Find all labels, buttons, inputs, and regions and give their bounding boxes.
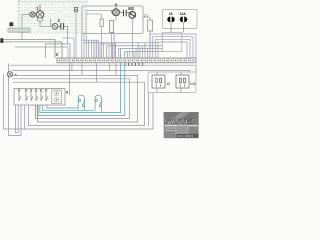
terminal box under M3 bbox=[38, 18, 43, 21]
svg-text:8: 8 bbox=[66, 91, 68, 95]
svg-text:10: 10 bbox=[166, 82, 170, 86]
wire fan teal bbox=[38, 63, 125, 115]
wire bbox=[35, 14, 36, 16]
control unit box bbox=[82, 6, 143, 34]
sensor 15 bbox=[100, 14, 103, 58]
socket S2 bbox=[176, 75, 189, 88]
label 2 bbox=[58, 18, 61, 23]
wire bridge bbox=[45, 44, 70, 58]
logo plate bbox=[164, 112, 199, 138]
socket S1 bbox=[152, 75, 165, 88]
label 1 bbox=[36, 5, 39, 10]
plug F1 bbox=[167, 17, 175, 29]
label 16 bbox=[169, 12, 173, 16]
label 10A bbox=[190, 82, 197, 86]
svg-text:10A: 10A bbox=[180, 12, 187, 16]
wire N bbox=[3, 40, 55, 58]
plug box bbox=[163, 10, 198, 29]
wire forest bbox=[74, 34, 148, 59]
wire fan red bbox=[35, 105, 37, 122]
jog wires bbox=[62, 38, 162, 52]
strip stubs bbox=[125, 63, 143, 66]
bus wires bbox=[10, 65, 196, 125]
dashed green enclosure (machine body) bbox=[17, 0, 88, 33]
svg-text:16: 16 bbox=[169, 12, 173, 16]
label 10A bbox=[180, 12, 187, 16]
wire bbox=[40, 21, 52, 26]
teal risers bbox=[121, 49, 125, 64]
wire fan gray bbox=[25, 93, 153, 130]
left terminal blob bbox=[0, 38, 3, 43]
thermostat 14 bbox=[74, 8, 77, 58]
wire plug drops bbox=[171, 29, 184, 33]
capacitor C2 bbox=[58, 23, 64, 30]
motor M2 bbox=[128, 6, 135, 58]
wire L bbox=[3, 42, 62, 58]
terminal strip bbox=[57, 58, 196, 63]
label 8 bbox=[66, 91, 68, 95]
plug F2 bbox=[180, 17, 188, 29]
resistor 21 bbox=[143, 14, 153, 58]
pressure switch contact B bbox=[95, 95, 102, 112]
bottom left U loops bbox=[3, 74, 24, 135]
strip drops bbox=[70, 63, 117, 95]
svg-text:COD. 390674: COD. 390674 bbox=[177, 134, 193, 138]
svg-text:SYSTEM: SYSTEM bbox=[164, 119, 198, 126]
wire bbox=[50, 19, 52, 27]
svg-text:10A: 10A bbox=[190, 82, 197, 86]
right nested links bbox=[150, 34, 196, 58]
socket box bbox=[148, 72, 196, 93]
capacitor C1 bbox=[120, 10, 130, 17]
wire E bbox=[15, 47, 68, 58]
timer contacts bbox=[18, 89, 48, 101]
door switch 4 bbox=[7, 63, 17, 88]
label 19 (filled block) bbox=[9, 22, 13, 26]
heater strip 49 bbox=[8, 28, 30, 32]
socket feeds bbox=[149, 72, 182, 126]
pump motor P1 bbox=[111, 4, 119, 21]
label 3 bbox=[56, 52, 59, 57]
label 10 bbox=[166, 82, 170, 86]
motor M3 bbox=[36, 5, 44, 19]
wire bbox=[22, 15, 30, 40]
timer motor bbox=[52, 90, 62, 104]
wire forest dark bbox=[94, 34, 116, 58]
heater R2 bbox=[110, 21, 114, 58]
pressure switch contact A bbox=[78, 95, 85, 110]
svg-text:M2: M2 bbox=[128, 6, 134, 11]
wire bbox=[64, 26, 68, 44]
pump P2 bbox=[52, 23, 58, 29]
relay block bbox=[162, 33, 182, 52]
lamp L1 bbox=[30, 12, 35, 17]
timer box bbox=[14, 89, 65, 106]
